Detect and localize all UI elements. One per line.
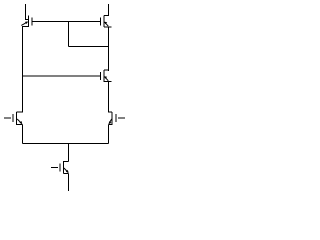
transistor M1 (top-left, gate on right) <box>21 16 32 27</box>
wire: left vertical M1 source to M4 drain <box>22 27 24 113</box>
transistor M5 (right middle, gate on right) <box>109 112 126 125</box>
transistor M6 source stub wire <box>68 173 70 191</box>
transistor M1 drain stub wire <box>25 4 27 20</box>
wire: diode-connect vertical from gate bus <box>68 22 70 47</box>
wire: diode-connect horizontal to M2 drain <box>69 46 109 48</box>
wire: gate bus M1-M2 <box>32 21 101 23</box>
transistor M6 (bottom center, gate on left) <box>51 161 69 174</box>
wire: M3 gate to left rail <box>23 75 101 77</box>
transistor M2 (top-right, gate on left, diode-connected) <box>100 16 111 28</box>
wire: rail junction down to M6 drain <box>68 144 70 162</box>
wire: M2 drain down to M3 <box>108 27 110 71</box>
wire: M5 source down to bottom rail <box>108 124 110 143</box>
transistor M2 source stub wire <box>108 4 110 16</box>
wire: M4 source down to bottom rail <box>22 124 24 143</box>
wire: bottom rail <box>23 143 109 145</box>
transistor M4 (left middle, gate on left) <box>4 112 23 125</box>
wire: M3 drain down to M5 <box>108 81 110 112</box>
transistor M3 (right middle, gate on left) <box>100 70 111 82</box>
